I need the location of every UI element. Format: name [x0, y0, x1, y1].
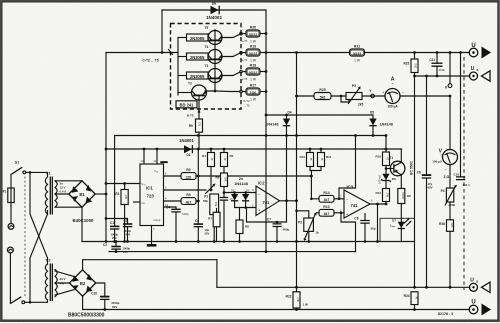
wire C6 column	[426, 76, 428, 174]
resistor R7	[216, 209, 218, 213]
wire collector chain	[205, 30, 215, 91]
wire T2 emitter out of box	[198, 95, 200, 119]
bridge rectifier B1	[69, 181, 95, 223]
diode D1	[184, 145, 192, 153]
wire T3 emitter to R18	[222, 72, 240, 75]
wire to IC2 inverting input	[235, 207, 256, 209]
wire pole b to Tr2 primary bottom	[25, 300, 48, 302]
LED D7	[398, 222, 405, 229]
wire current limit sense y115	[266, 114, 373, 116]
IC1 pin 4 wire to R3	[164, 200, 182, 202]
capacitor C8	[364, 214, 366, 221]
wire B1 minus down	[81, 207, 83, 241]
resistor R2	[181, 173, 196, 180]
node collector junction	[161, 51, 164, 54]
wire N down to pole b	[9, 253, 11, 304]
potentiometer P3	[346, 93, 362, 100]
resistor R6	[221, 173, 228, 187]
terminal U bottom	[469, 305, 478, 314]
resistor R15	[398, 189, 405, 204]
meter A 100uA	[385, 89, 400, 104]
resistor R5	[223, 149, 225, 153]
transistor T1 BC550C	[386, 156, 414, 176]
wire mid bus y287	[217, 286, 470, 288]
wire collector feed C-T2...T5	[106, 52, 178, 54]
node common bar	[147, 244, 157, 247]
capacitor C1	[114, 136, 116, 227]
wire IC3 pin2 from mid rail	[339, 136, 356, 199]
terminal mains N	[7, 247, 13, 253]
resistor R3	[181, 198, 196, 205]
switch S1 pole b	[10, 297, 21, 304]
wire T2 to R17	[215, 90, 246, 93]
wire meter V to P4	[449, 165, 451, 188]
potentiometer P1	[206, 185, 214, 193]
wire divider bracket	[310, 167, 321, 199]
resistor R25	[314, 93, 331, 100]
wire B1 plus out	[95, 193, 106, 195]
wire left rail from collector line	[105, 53, 107, 242]
capacitor C5	[220, 198, 228, 201]
wire IC3 pin3 from aux bus	[341, 213, 356, 252]
potentiometer P4	[446, 188, 453, 202]
IC1 input wire left	[106, 183, 140, 185]
terminal U top	[469, 48, 478, 57]
transistor T3 2N3055	[178, 64, 223, 83]
capacitor C11	[436, 53, 438, 64]
wire T5 emitter to R20	[222, 34, 240, 37]
resistor R19	[246, 49, 260, 56]
resistor R20	[246, 30, 260, 37]
resistor R11	[320, 149, 322, 153]
wire meter branch	[297, 95, 386, 97]
IC1 pin 7 to bus	[151, 226, 153, 245]
wire T4 emitter to R19	[222, 53, 240, 56]
wire sense line Us	[415, 75, 470, 77]
capacitor C9	[460, 53, 462, 177]
switch S1 pole a	[11, 167, 22, 174]
diode D5	[372, 115, 374, 119]
IC1 pin 6 wire to R2	[164, 175, 182, 177]
IC1 723 regulator	[140, 164, 164, 226]
resistor R13	[319, 209, 334, 216]
wire left drop to collector line	[161, 10, 163, 53]
resistor R4	[210, 149, 212, 153]
resistor R18	[246, 68, 260, 75]
wire cap feed	[106, 218, 128, 220]
diode D6	[211, 6, 219, 15]
wire ground bus bottom	[83, 309, 470, 311]
dashed enclosure power transistors	[171, 24, 242, 110]
resistor R21	[350, 49, 365, 56]
test point X	[449, 53, 451, 84]
wire meter to X column	[400, 96, 450, 150]
terminal mains L	[8, 224, 14, 230]
resistor R23	[414, 53, 416, 60]
wire IC2 output	[280, 200, 297, 202]
resistor R10	[309, 149, 311, 153]
wire R23 column long	[414, 76, 416, 287]
IC1 pin stub lower left	[134, 201, 141, 203]
wire aux bus y251	[109, 251, 356, 253]
capacitor C4	[171, 209, 180, 212]
diode D4	[286, 115, 288, 119]
wire IC3 output	[370, 203, 386, 205]
fuse F1	[8, 188, 14, 203]
resistor R17	[246, 88, 260, 95]
resistor R1	[124, 184, 126, 190]
transformer Tr2	[45, 258, 65, 301]
capacitor C6b	[422, 174, 431, 176]
wire load column	[296, 53, 298, 292]
wire T1 emitter to rail	[400, 149, 402, 162]
resistor R22	[293, 292, 300, 308]
test point Y	[371, 94, 375, 98]
node taps on dashed edge	[240, 90, 242, 92]
capacitor C10	[100, 296, 109, 298]
resistor R14	[319, 195, 334, 202]
wire mid rail y135	[115, 135, 386, 137]
wire top bypass left	[162, 9, 266, 11]
wire D4 column down to IC2 output	[286, 136, 288, 201]
wire T1 collector down	[400, 175, 402, 189]
resistor R26	[447, 220, 454, 232]
wire L to fuse	[10, 205, 12, 224]
wires Tr2 secondary to B2	[55, 271, 74, 295]
op-amp IC2 741	[256, 186, 280, 216]
node V+ bar	[160, 161, 167, 163]
wire right drop to emitter bus	[265, 10, 267, 252]
wires Tr1 secondary to B1	[55, 181, 82, 207]
transformer Tr1	[45, 171, 67, 214]
IC1 pin 5 wire to P1	[164, 189, 207, 191]
op-amp IC3 741	[344, 190, 370, 218]
potentiometer P2	[317, 212, 320, 214]
wire switch to Tr1 primary	[26, 172, 48, 177]
wire negative bus y241	[82, 241, 415, 243]
bridge rectifier B2	[69, 270, 95, 296]
transistor T5 2N3055	[178, 26, 223, 45]
zener D8	[382, 174, 389, 181]
terminal Us bottom	[470, 283, 478, 291]
capacitor C3	[127, 219, 129, 224]
resistor R12	[383, 189, 390, 202]
capacitor C7	[276, 222, 278, 224]
wire supply rail y149	[106, 148, 402, 150]
meter V	[443, 150, 458, 165]
terminal Us top	[470, 72, 478, 80]
transistor T4 2N3055	[178, 45, 223, 64]
IC1 pin 11	[156, 149, 158, 164]
dashed separation line	[463, 57, 465, 290]
wire pole a to Tr2 primary top	[30, 172, 48, 264]
resistor R9	[196, 119, 203, 132]
transistor T2 BD241	[176, 82, 207, 108]
wire output drop	[377, 204, 379, 242]
capacitor C6	[194, 223, 203, 225]
node P3 tap	[340, 95, 343, 98]
wire B2 bottom to ground bus	[82, 296, 84, 309]
wire main output rail	[266, 52, 469, 54]
IC1 pin 13 wire to C4	[164, 207, 177, 209]
resistor R16	[383, 152, 390, 166]
IC1 pin 12	[143, 149, 145, 164]
resistor R24	[411, 292, 418, 305]
resistor R8	[239, 208, 241, 221]
wire B2 top to aux rail	[83, 260, 217, 288]
wire B2 right to C10	[96, 283, 105, 296]
wire base bus	[177, 38, 179, 96]
wire IC2 feedback	[247, 201, 287, 222]
wire Tr1 primary bottom crossing	[30, 211, 48, 303]
wire R2 R3 C6 column	[197, 149, 199, 223]
indicator box D7	[380, 218, 415, 241]
dashed link S1	[24, 177, 26, 298]
capacitor C2	[115, 242, 117, 247]
wire T1 column top	[385, 136, 387, 153]
